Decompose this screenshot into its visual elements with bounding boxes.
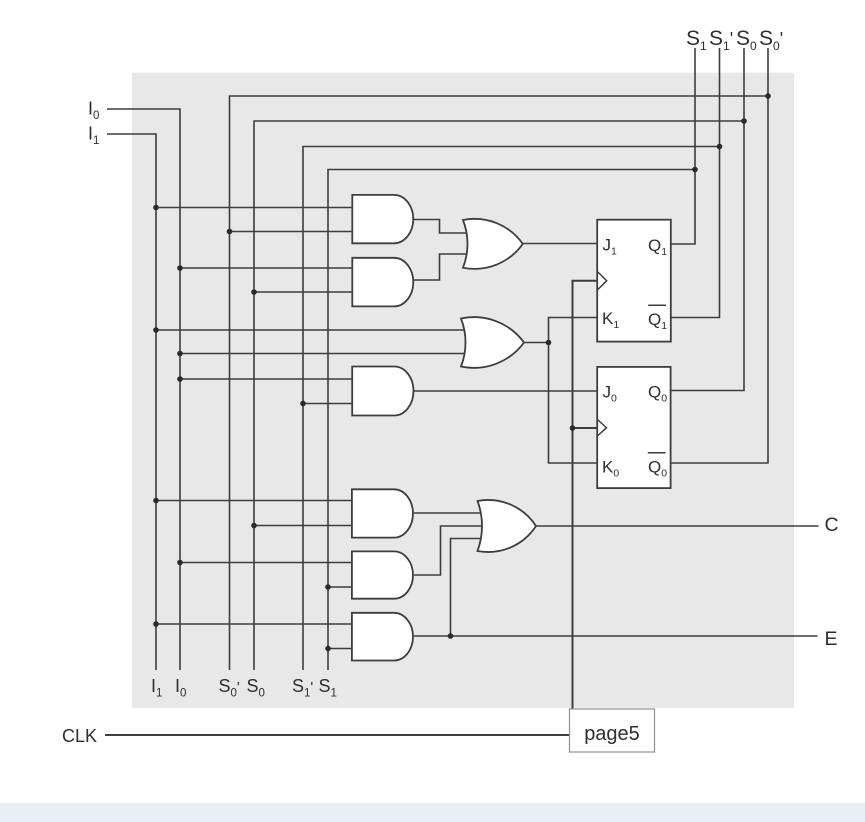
svg-text:S0': S0' — [759, 27, 783, 53]
svg-text:S1': S1' — [709, 27, 733, 53]
svg-text:S0': S0' — [219, 676, 240, 700]
svg-text:CLK: CLK — [62, 726, 97, 746]
svg-text:C: C — [825, 514, 839, 536]
svg-text:E: E — [825, 628, 838, 650]
svg-text:S1': S1' — [292, 676, 313, 700]
svg-text:page5: page5 — [584, 723, 640, 745]
